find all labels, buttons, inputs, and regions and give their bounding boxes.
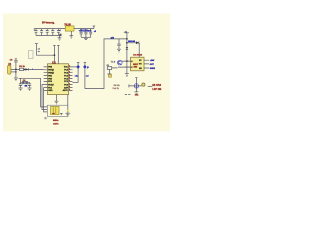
crystal net lower wire [21, 81, 30, 83]
jumper top tick [35, 43, 38, 45]
svg-text:T1 B: T1 B [111, 62, 116, 64]
blue tick on wire [32, 69, 34, 71]
IC1 pin numbers right (red) [69, 66, 70, 92]
input filter vertical wire [15, 62, 17, 78]
optocoupler IC3 body [131, 57, 144, 71]
IC3 right pin net labels blue [150, 59, 155, 70]
supply symbol 5V [125, 33, 129, 39]
gnd rail under caps [36, 35, 60, 37]
voltage regulator IC2 78L05 [65, 26, 74, 31]
crystal cap CB [28, 82, 31, 87]
IC1 pin names left column [48, 67, 54, 93]
junction supply [126, 38, 128, 40]
svg-text:PC3: PC3 [64, 75, 68, 77]
wire pin1 to line A [73, 66, 77, 68]
bus wire 1 down to resonator [41, 78, 48, 107]
ground under trimmer [134, 92, 138, 93]
ground under supply vertical [125, 74, 129, 77]
base resistor R3 [107, 67, 111, 70]
svg-text:8: 8 [69, 86, 70, 88]
ground at resonator right [65, 113, 70, 116]
yellow pad [109, 74, 112, 77]
power rail +5V (right of regulator) [74, 28, 94, 30]
svg-text:CSTC: CSTC [53, 123, 59, 125]
svg-text:1N4148: 1N4148 [128, 40, 136, 43]
IC1 pin names right column [63, 67, 69, 93]
filter cap right [117, 39, 120, 49]
zener on supply vertical [126, 47, 128, 49]
small lamp [142, 83, 145, 86]
trimmer body [134, 84, 138, 88]
trimmer vertical wire [135, 78, 137, 92]
ground input [14, 78, 18, 81]
wire GND down to IC1 pin [57, 45, 60, 64]
wire into VCC vertical [36, 44, 54, 56]
ground crystal cap B [28, 88, 32, 91]
resistor R1 [19, 68, 23, 70]
wire pin to line A [73, 82, 79, 84]
long net wire right [85, 39, 127, 89]
svg-text:3: 3 [69, 71, 70, 73]
rail left end tick [33, 29, 35, 31]
svg-text:2: 2 [69, 69, 70, 71]
polarized capacitor C5 [57, 29, 60, 36]
svg-text:PB6(X: PB6(X [48, 73, 54, 75]
svg-text:sc: sc [38, 51, 40, 53]
svg-text:R5 47k3: R5 47k3 [152, 84, 161, 87]
ground crystal cap A [19, 88, 23, 91]
dark marks inside box right [60, 113, 62, 114]
ground symbol right group [84, 37, 88, 39]
ground filter cap [117, 49, 121, 52]
IC1 right pin stubs [69, 67, 73, 91]
capacitor C8 [89, 29, 92, 38]
ground symbol at ladder right [58, 36, 62, 41]
svg-text:+5: +5 [94, 31, 96, 33]
gray dash right [148, 85, 153, 87]
svg-text:R6 10k: R6 10k [114, 85, 121, 87]
svg-text:5: 5 [69, 77, 70, 79]
gnd rail under right caps [81, 36, 91, 38]
capacitor at input [14, 59, 17, 62]
svg-text:GND2: GND2 [150, 68, 155, 70]
svg-text:6: 6 [69, 80, 70, 82]
net line B with label flag [84, 63, 86, 89]
schematic canvas background [3, 14, 170, 132]
microcontroller IC1 body [48, 64, 69, 95]
supply vertical to ground [126, 61, 128, 73]
IC3 right pin stubs [144, 60, 149, 68]
svg-text:+24V: +24V [150, 59, 155, 62]
svg-text:9: 9 [69, 89, 70, 91]
svg-text:7: 7 [69, 83, 70, 85]
wire VCC down to IC1 pin [53, 45, 56, 64]
ground under R3 [107, 74, 111, 77]
main input wire [11, 68, 44, 70]
svg-text:PC2: PC2 [64, 78, 68, 80]
svg-text:PC5: PC5 [64, 70, 68, 72]
IC3 pin names [131, 60, 142, 70]
capacitor C2 [40, 29, 43, 36]
R3 ground vertical [108, 69, 110, 73]
dark blob near C5 body [59, 34, 61, 36]
capacitor C3 [46, 29, 49, 36]
svg-text:GND: GND [48, 90, 53, 92]
resonator internal plates [53, 107, 56, 113]
junction dot input2 [15, 71, 17, 73]
yellow tick right edge [67, 110, 70, 112]
svg-text:PB0: PB0 [48, 78, 52, 80]
plus mark left of box [44, 118, 46, 119]
regulator ground [69, 31, 73, 38]
trimmer cross [134, 84, 138, 88]
gnd dashes left below [125, 94, 131, 96]
IC1 ground below [54, 95, 58, 104]
svg-text:AVCC: AVCC [63, 89, 69, 92]
svg-text:8MHz: 8MHz [53, 120, 58, 122]
IC1 left pin stubs [44, 67, 48, 91]
crystal cap CA [19, 78, 22, 87]
junction on supply vertical [126, 60, 128, 62]
capacitor C6 [80, 29, 83, 38]
svg-text:PB5: PB5 [48, 67, 52, 69]
jumper pad outline [29, 51, 33, 59]
rail right end up tick [93, 26, 95, 29]
resonator Q2 body [51, 106, 59, 114]
net line A with label flag [77, 63, 79, 83]
capacitor C7 [84, 29, 87, 38]
blue arrow A [76, 65, 80, 69]
power rail VCC (top horizontal wire, left of regulator) [34, 28, 65, 30]
svg-text:LSP 10k: LSP 10k [152, 89, 162, 91]
svg-text:VCC: VCC [64, 67, 69, 69]
bus wire 3 down to resonator [44, 88, 48, 112]
svg-text:PC0: PC0 [64, 84, 68, 86]
svg-text:PB1: PB1 [48, 75, 52, 77]
svg-text:PC1: PC1 [64, 81, 68, 83]
connector X1 [8, 65, 11, 74]
svg-text:6N137: 6N137 [133, 64, 138, 66]
blue arrow B [83, 65, 87, 69]
junction dot input [15, 69, 17, 71]
transistor Q2 [118, 60, 123, 65]
trimmer wiper wire [129, 84, 142, 87]
wire R3 to IC3 pin2 [112, 66, 131, 69]
transistor Q2 strokes [119, 61, 122, 65]
crystal net upper wire [19, 77, 41, 79]
diode branch wire [127, 43, 139, 57]
capacitor C1 [35, 29, 38, 36]
junction diode branch [126, 42, 128, 44]
bus wire 2 down to resonator [42, 85, 47, 110]
svg-text:5V-Versorg.: 5V-Versorg. [42, 23, 55, 25]
svg-text:cer: cer [52, 113, 55, 115]
svg-text:IC3 6N13: IC3 6N13 [133, 54, 143, 56]
junction dot after R1 [24, 69, 26, 71]
diode D2 [25, 68, 28, 70]
resonator courtyard box [47, 105, 68, 116]
diode D1 [136, 41, 139, 44]
wire Q2 to IC3 pin1 [122, 60, 131, 62]
svg-text:Poti 1k: Poti 1k [113, 87, 120, 90]
svg-text:scl: scl [86, 76, 89, 78]
svg-text:1: 1 [69, 66, 70, 68]
svg-text:PD5(T: PD5(T [48, 84, 54, 86]
svg-text:PB7(X: PB7(X [48, 70, 54, 72]
crystal Q1 [23, 82, 26, 84]
junction dot [54, 54, 56, 56]
capacitor C4 [51, 29, 54, 36]
IC3 left pin stubs [125, 61, 131, 67]
svg-text:PD6: PD6 [48, 81, 52, 83]
supply vertical down [126, 39, 128, 61]
wire IC1 to resonator right [67, 95, 69, 113]
connector pin2 wire [11, 71, 16, 73]
